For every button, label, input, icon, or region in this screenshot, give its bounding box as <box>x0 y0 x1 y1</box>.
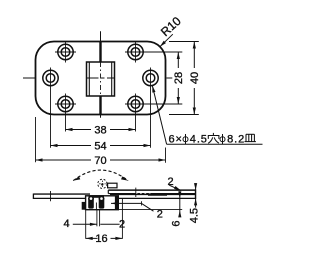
svg-text:40: 40 <box>189 72 201 84</box>
svg-text:38: 38 <box>94 124 106 136</box>
svg-text:4: 4 <box>63 218 69 230</box>
svg-text:6: 6 <box>170 221 182 227</box>
svg-text:54: 54 <box>94 140 106 152</box>
svg-text:4.5: 4.5 <box>189 208 201 223</box>
svg-text:28: 28 <box>173 72 185 84</box>
svg-text:2: 2 <box>119 219 125 231</box>
svg-text:4.5: 4.5 <box>190 134 208 146</box>
svg-text:6×: 6× <box>169 134 183 146</box>
svg-text:2: 2 <box>157 209 163 221</box>
svg-text:16: 16 <box>95 233 107 245</box>
svg-text:70: 70 <box>94 155 106 167</box>
svg-text:8.2: 8.2 <box>227 134 245 146</box>
